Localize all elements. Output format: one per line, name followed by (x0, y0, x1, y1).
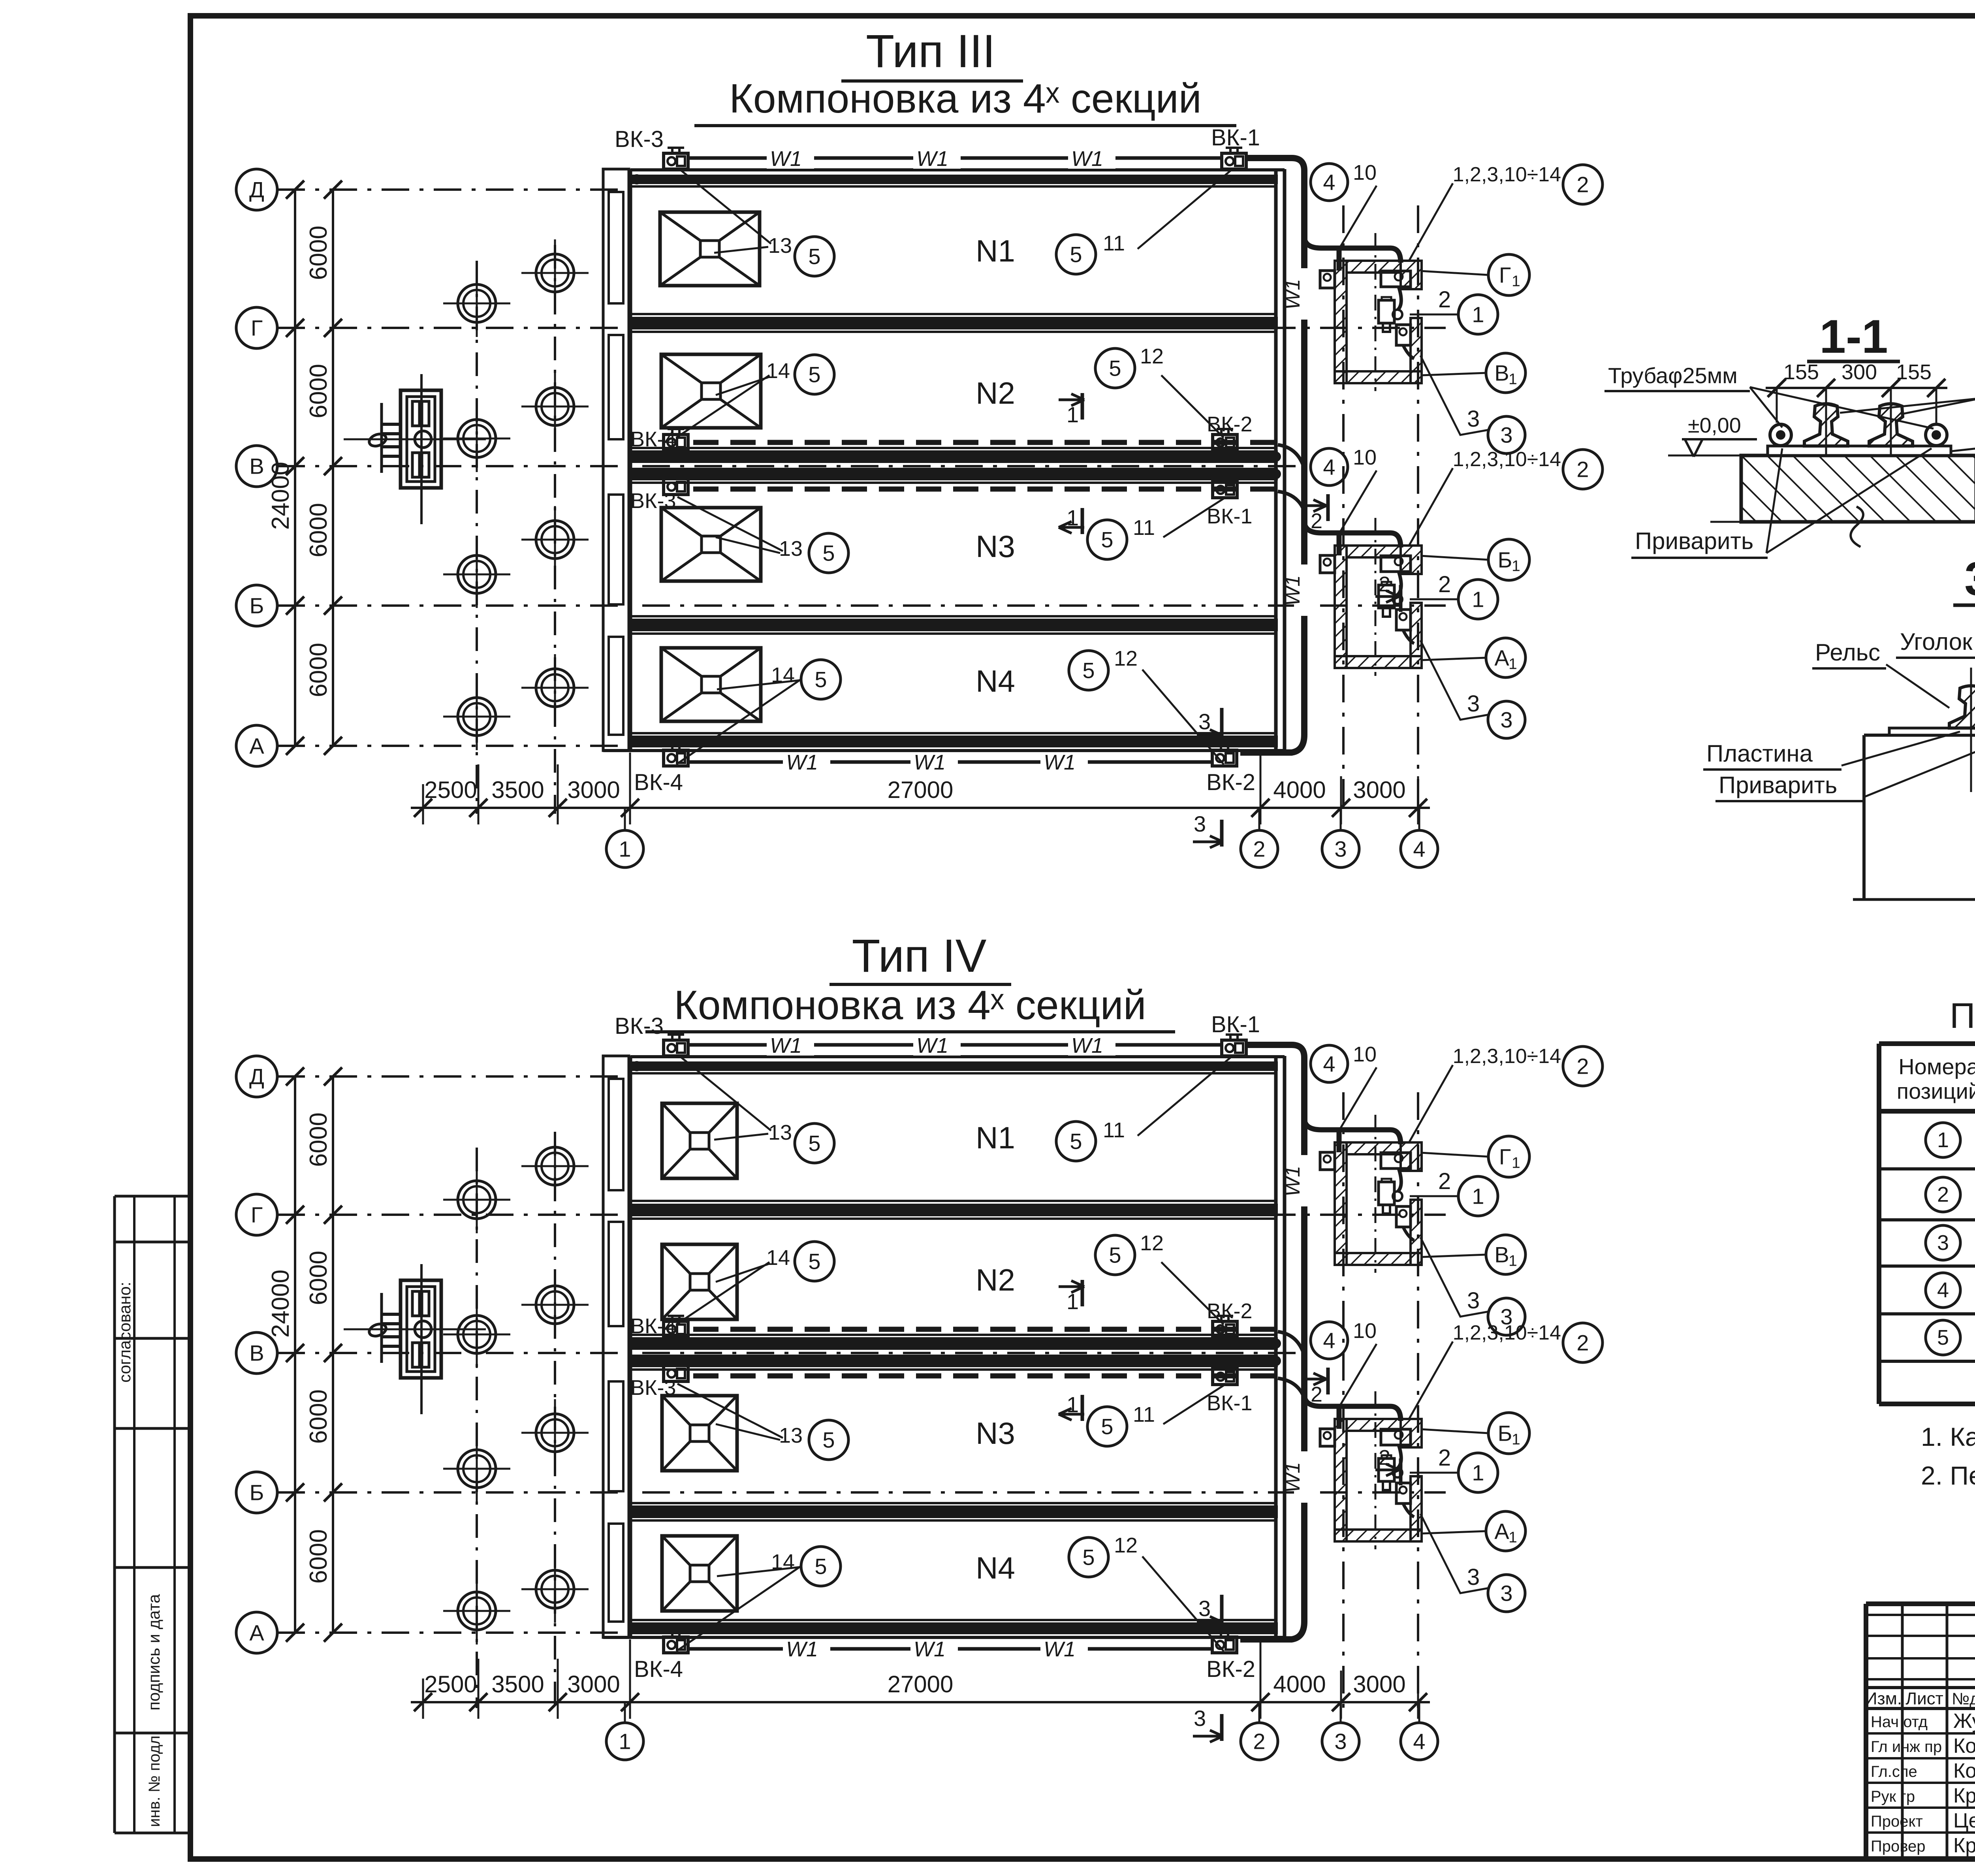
callout 2 (шкаф управления) with cable list (1563, 450, 1603, 489)
svg-text:1,2,3,10÷14: 1,2,3,10÷14 (1453, 163, 1561, 186)
electric motor (1379, 300, 1394, 323)
svg-text:Г: Г (1499, 263, 1511, 288)
svg-text:3: 3 (1467, 691, 1480, 717)
column axis 4 line (1417, 205, 1419, 814)
svg-text:Тип IV: Тип IV (852, 930, 987, 982)
svg-text:1: 1 (1509, 371, 1517, 388)
vertical dim line 6000s (332, 190, 334, 746)
junction box on pit wall (1320, 1429, 1335, 1446)
svg-text:5: 5 (808, 1131, 820, 1156)
svg-text:Коновалова: Коновалова (1953, 1759, 1975, 1782)
svg-text:W1: W1 (786, 751, 818, 774)
svg-text:1: 1 (1509, 656, 1517, 673)
limit switch ВК-3 (mid2) (664, 1366, 688, 1381)
svg-text:2: 2 (1438, 572, 1451, 597)
callout 4 (кнопка управления) (1311, 1045, 1348, 1082)
svg-text:Провер: Провер (1871, 1838, 1926, 1855)
cable W1 dashed run lower (693, 1374, 1275, 1379)
svg-text:А: А (1494, 1519, 1509, 1544)
svg-text:11: 11 (1133, 1403, 1155, 1426)
svg-text:Тип III: Тип III (866, 25, 995, 77)
svg-text:ВК-3: ВК-3 (615, 1013, 664, 1039)
callout 3 (щиток) (1488, 416, 1525, 453)
svg-text:4: 4 (1323, 1328, 1335, 1353)
svg-text:1: 1 (1509, 1529, 1517, 1546)
svg-text:Рельс: Рельс (1815, 639, 1880, 666)
callout 1 (эл. двигатель) (1458, 580, 1498, 619)
svg-text:3000: 3000 (567, 777, 620, 803)
section mark 1 (upper) (1081, 393, 1084, 420)
sludge scraper hopper (plan) (662, 1536, 737, 1611)
hole column centerlines (476, 261, 478, 814)
svg-text:3: 3 (1467, 1288, 1480, 1313)
svg-text:1: 1 (1472, 587, 1484, 612)
svg-text:3: 3 (1500, 707, 1512, 732)
svg-text:ВК-2: ВК-2 (1207, 1299, 1253, 1323)
signature grid verticals (1901, 1604, 1904, 1859)
svg-text:ВК-2: ВК-2 (1206, 770, 1255, 795)
svg-text:13: 13 (779, 537, 803, 561)
svg-text:1: 1 (1066, 505, 1079, 530)
svg-text:1: 1 (1512, 558, 1520, 575)
svg-text:W1: W1 (1281, 575, 1304, 606)
svg-text:6000: 6000 (305, 1112, 332, 1167)
limit switch ВК-2 (bottom) (1212, 1637, 1237, 1653)
svg-text:W1: W1 (1281, 279, 1304, 310)
svg-text:N3: N3 (976, 1416, 1015, 1451)
callout 3 (щиток) (1488, 701, 1525, 738)
row axis В (236, 446, 277, 487)
svg-text:Гл инж пр: Гл инж пр (1871, 1738, 1942, 1756)
svg-text:1: 1 (1472, 1184, 1484, 1209)
switch box inside pit (1381, 556, 1411, 572)
svg-text:5: 5 (1109, 1243, 1121, 1268)
svg-text:Г: Г (251, 1202, 263, 1227)
svg-text:3: 3 (1334, 837, 1347, 862)
svg-text:ВК-1: ВК-1 (1207, 504, 1253, 528)
limit switch ВК-2 (bottom) (1212, 750, 1237, 766)
electric motor (1379, 1182, 1394, 1205)
svg-text:4: 4 (1413, 837, 1425, 862)
svg-text:5: 5 (808, 1249, 820, 1274)
svg-text:27000: 27000 (888, 777, 954, 803)
svg-text:№документа: №документа (1952, 1690, 1975, 1708)
svg-text:Нач отд: Нач отд (1871, 1713, 1928, 1731)
svg-text:2: 2 (1253, 837, 1265, 862)
table row 1 (1926, 1123, 1960, 1157)
svg-text:3000: 3000 (1353, 1671, 1405, 1697)
callout 5/11 section N1 (1138, 1056, 1232, 1136)
svg-text:В: В (1494, 1242, 1509, 1267)
svg-text:Г: Г (251, 316, 263, 341)
middle dividing walls N2/N3 (630, 447, 1276, 449)
sludge scraper hopper (plan) (660, 212, 760, 286)
row axis Г (236, 1194, 277, 1235)
svg-text:12: 12 (1140, 1231, 1164, 1255)
svg-text:14: 14 (766, 359, 790, 383)
svg-text:5: 5 (1101, 527, 1113, 552)
svg-text:5: 5 (1101, 1414, 1113, 1439)
svg-text:3: 3 (1500, 1581, 1512, 1606)
svg-text:2: 2 (1438, 1169, 1451, 1194)
callout 13/5 section N1 (679, 169, 771, 244)
pile holes column A (458, 284, 496, 322)
callout 4 (кнопка управления) (1311, 1322, 1348, 1359)
svg-text:2: 2 (1379, 572, 1390, 596)
svg-text:ВК-4: ВК-4 (630, 427, 676, 451)
svg-text:10: 10 (1353, 161, 1377, 184)
svg-text:5: 5 (808, 362, 820, 387)
svg-text:3-3: 3-3 (1964, 552, 1975, 605)
svg-text:Перечень эл.оборудования: Перечень эл.оборудования (1950, 996, 1975, 1036)
electric motor (1379, 585, 1394, 608)
svg-text:ВК-2: ВК-2 (1206, 1656, 1255, 1682)
svg-text:12: 12 (1114, 1534, 1138, 1557)
svg-text:Проект: Проект (1871, 1813, 1923, 1830)
bottom wall rail (630, 732, 1276, 734)
bottom wall rail (630, 1619, 1276, 1621)
callout 13/5 section N3 (677, 497, 783, 551)
callout 5/11 section N3 (1163, 499, 1224, 537)
svg-text:5: 5 (822, 1428, 835, 1453)
svg-text:2: 2 (1311, 509, 1322, 533)
svg-text:1: 1 (1509, 1253, 1517, 1270)
section mark 2-2 upper (1304, 1378, 1326, 1381)
junction box on pit wall (1320, 1152, 1335, 1170)
base plate (1768, 446, 1951, 455)
callout 13/5 section N3 (677, 1384, 783, 1438)
switch box inside pit (1381, 271, 1411, 287)
svg-text:Гл.спе: Гл.спе (1871, 1763, 1917, 1780)
svg-text:2: 2 (1937, 1183, 1949, 1206)
svg-text:155: 155 (1783, 360, 1819, 384)
svg-text:6000: 6000 (305, 1389, 332, 1444)
inlet pipe stub (382, 423, 401, 426)
svg-text:позиций: позиций (1897, 1079, 1975, 1104)
svg-text:3: 3 (1194, 811, 1206, 836)
svg-text:24000: 24000 (267, 1270, 294, 1338)
svg-text:1: 1 (619, 1729, 631, 1754)
svg-text:2. Перечень эл. оборудования: 2. Перечень эл. оборудования дан для 2ˣ … (1921, 1461, 1975, 1490)
divider wall N3/N4 (630, 1502, 1276, 1504)
rail left (1804, 404, 1848, 446)
divider wall N1/N2 (630, 313, 1276, 315)
scraper rail top (632, 175, 1278, 184)
svg-text:3000: 3000 (1353, 777, 1405, 803)
svg-text:1: 1 (1066, 1392, 1079, 1417)
cable W1 bottom run (688, 1647, 1212, 1651)
cable trunk right side (1240, 158, 1304, 753)
callout 5/12 section N2 (1161, 1262, 1224, 1325)
dim line 155/300/155 (1766, 387, 1947, 389)
sludge scraper hopper (plan) (662, 1103, 737, 1178)
left margin stamp table (113, 1196, 116, 1833)
callout 5/11 section N1 (1138, 169, 1232, 249)
svg-text:14: 14 (771, 663, 795, 687)
pit centerline (1375, 1391, 1377, 1549)
svg-text:1: 1 (1512, 1155, 1520, 1172)
limit switch ВК-4 (bottom) (664, 750, 688, 766)
sludge scraper hopper (plan) (661, 648, 761, 721)
svg-text:1: 1 (1066, 402, 1079, 427)
svg-text:27000: 27000 (888, 1671, 954, 1697)
limit switch ВК-1 (top) (1222, 153, 1246, 169)
limit switch ВК-4 (mid) (664, 435, 688, 450)
cable branch into pit (1304, 236, 1401, 263)
svg-text:5: 5 (1109, 356, 1121, 381)
callout 13/5 section N1 (679, 1056, 771, 1131)
svg-text:10: 10 (1353, 446, 1377, 469)
svg-text:ВК-4: ВК-4 (630, 1314, 676, 1338)
svg-text:согласовано:: согласовано: (115, 1282, 134, 1383)
svg-text:В: В (249, 1341, 264, 1366)
svg-text:ВК-3: ВК-3 (630, 489, 676, 513)
svg-text:Д: Д (249, 177, 264, 202)
section mark 2-2 lower (1375, 595, 1399, 598)
vertical dim line 6000s (332, 1076, 334, 1633)
sludge scraper hopper (plan) (662, 1244, 737, 1319)
column axis circles 1-4 (624, 1702, 626, 1723)
svg-text:N1: N1 (976, 1120, 1015, 1155)
middle dividing walls N2/N3 (630, 1334, 1276, 1336)
svg-text:Целюба: Целюба (1953, 1809, 1975, 1832)
svg-text:12: 12 (1114, 647, 1138, 670)
scraper rail top (632, 1061, 1278, 1071)
svg-text:14: 14 (766, 1246, 790, 1270)
svg-text:1,2,3,10÷14: 1,2,3,10÷14 (1453, 1321, 1561, 1344)
svg-text:10: 10 (1353, 1042, 1377, 1066)
svg-text:5: 5 (1070, 1129, 1082, 1154)
svg-text:ВК-1: ВК-1 (1211, 125, 1260, 151)
svg-text:ВК-4: ВК-4 (634, 1656, 683, 1682)
motor pit at y=2892 (1335, 1142, 1422, 1265)
divider wall N1/N2 (630, 1200, 1276, 1202)
table row 4 (1926, 1273, 1960, 1308)
svg-text:1,2,3,10÷14: 1,2,3,10÷14 (1453, 448, 1561, 471)
svg-text:1: 1 (1472, 302, 1484, 327)
callout 14/5 section N4 (676, 679, 802, 764)
svg-text:ВК-3: ВК-3 (630, 1376, 676, 1400)
svg-text:N2: N2 (976, 1263, 1015, 1297)
callout 1 (эл. двигатель) (1458, 1176, 1498, 1216)
svg-text:А: А (1494, 645, 1509, 670)
column axis 4 line (1417, 1092, 1419, 1708)
svg-text:4: 4 (1937, 1278, 1949, 1302)
svg-text:±0,00: ±0,00 (1688, 414, 1741, 437)
svg-text:13: 13 (768, 1121, 792, 1144)
callout 1 (эл. двигатель) (1458, 1453, 1498, 1492)
svg-text:3: 3 (1937, 1231, 1949, 1255)
svg-text:Б: Б (250, 593, 264, 618)
svg-text:5: 5 (1082, 1545, 1095, 1570)
table row 5 (1926, 1320, 1960, 1355)
switch box inside pit (1381, 1429, 1411, 1445)
pit centerline (1375, 518, 1377, 676)
bottom break line (3-3) (1853, 898, 1975, 901)
svg-text:Кривой: Кривой (1953, 1834, 1975, 1857)
tank wall top surface (3-3) (1864, 734, 1975, 737)
svg-text:В: В (1494, 361, 1509, 386)
svg-text:W1: W1 (916, 147, 948, 171)
svg-text:Номера: Номера (1898, 1054, 1975, 1079)
svg-text:Пластина: Пластина (1706, 740, 1813, 767)
svg-text:А: А (249, 1620, 264, 1645)
svg-text:инв. № подл.: инв. № подл. (146, 1731, 163, 1827)
cable trunk right side (1240, 1045, 1304, 1639)
junction box on pit wall (1320, 555, 1335, 573)
cable W1 top run (688, 156, 1222, 160)
svg-text:Г: Г (1499, 1144, 1511, 1169)
tank wall left edge (1862, 735, 1866, 899)
vertical dim line 24000 (294, 1076, 296, 1633)
svg-text:1. Кабельный журнал см. лист: 1. Кабельный журнал см. листы Э03 ÷ Э07 … (1921, 1422, 1975, 1451)
svg-text:2: 2 (1576, 172, 1589, 197)
bottom dimension chain (411, 807, 1430, 809)
svg-text:1: 1 (1512, 1431, 1520, 1448)
callout 5/11 section N3 (1163, 1385, 1224, 1424)
section mark 1 (lower) (1081, 1395, 1084, 1421)
row axis Д (236, 169, 277, 210)
limit switch ВК-1 (top) (1222, 1040, 1246, 1056)
table grid (1877, 1044, 1881, 1404)
svg-text:5: 5 (808, 244, 820, 269)
inlet distribution chamber (401, 390, 441, 488)
svg-text:W1: W1 (786, 1637, 818, 1661)
cable W1 dashed run upper (693, 1327, 1275, 1332)
limit switch ВК-1 (mid2) (1213, 1369, 1237, 1385)
svg-text:10: 10 (1353, 1319, 1377, 1343)
svg-text:1: 1 (1937, 1128, 1949, 1152)
svg-text:Кривой: Кривой (1953, 1784, 1975, 1807)
row axis Б (236, 585, 277, 626)
svg-text:5: 5 (814, 667, 827, 692)
motor pit at y=1381 (1335, 546, 1422, 668)
column axis 3 line (1342, 205, 1345, 814)
lower switch in pit (1396, 1206, 1411, 1227)
axis mark А1 (1486, 638, 1525, 677)
row axis Б (236, 1472, 277, 1513)
svg-text:ВК-1: ВК-1 (1211, 1012, 1260, 1037)
svg-text:2500: 2500 (424, 777, 477, 803)
svg-text:W1: W1 (770, 1034, 802, 1057)
rail right (1869, 404, 1913, 446)
svg-text:Изм.: Изм. (1865, 1689, 1902, 1709)
svg-text:W1: W1 (1044, 751, 1076, 774)
pit centerline (1375, 233, 1377, 391)
callout 4 (кнопка управления) (1311, 164, 1348, 201)
concrete plinth (hatched) (1741, 455, 1975, 522)
svg-text:5: 5 (1082, 658, 1095, 683)
svg-text:Рук гр: Рук гр (1871, 1788, 1915, 1805)
svg-text:В: В (249, 454, 264, 479)
svg-text:N2: N2 (976, 376, 1015, 410)
svg-text:3: 3 (1198, 709, 1211, 734)
cable W1 top run (688, 1043, 1222, 1047)
limit switch ВК-3 (top) (664, 153, 688, 169)
column axis circles 1-4 (624, 808, 626, 830)
svg-text:ВК-4: ВК-4 (634, 770, 683, 795)
svg-text:Журавель: Журавель (1953, 1710, 1975, 1733)
svg-text:24000: 24000 (267, 462, 294, 530)
section mark 1 (upper) (1081, 1280, 1084, 1306)
cable links to trunk (middle) (1278, 445, 1303, 464)
svg-text:2: 2 (1576, 1054, 1589, 1079)
svg-text:155: 155 (1896, 360, 1932, 384)
svg-text:ВК-2: ВК-2 (1207, 412, 1253, 436)
axis mark Г1 (1488, 1136, 1529, 1177)
svg-text:W1: W1 (770, 147, 802, 171)
svg-text:3: 3 (1467, 1564, 1480, 1590)
svg-text:4: 4 (1323, 170, 1335, 195)
svg-text:Б: Б (250, 1480, 264, 1505)
callout 2 (шкаф управления) with cable list (1563, 1046, 1603, 1086)
svg-text:W1: W1 (1281, 1166, 1304, 1197)
pile holes column B (536, 254, 574, 292)
axis mark В1 (1486, 353, 1525, 393)
svg-text:3000: 3000 (567, 1671, 620, 1697)
svg-text:Приварить: Приварить (1635, 528, 1753, 554)
section mark 2-2 lower (1375, 1469, 1399, 1471)
svg-text:5: 5 (822, 541, 835, 566)
callout 2 (шкаф управления) with cable list (1563, 165, 1603, 204)
svg-text:Д: Д (249, 1064, 264, 1089)
svg-text:6000: 6000 (305, 503, 332, 557)
svg-text:Козловская: Козловская (1953, 1735, 1975, 1757)
svg-text:1,2,3,10÷14: 1,2,3,10÷14 (1453, 1045, 1561, 1068)
svg-text:6000: 6000 (305, 364, 332, 418)
switch box inside pit (1381, 1153, 1411, 1169)
svg-text:3500: 3500 (491, 1671, 544, 1697)
svg-text:2: 2 (1576, 1330, 1589, 1355)
axis mark В1 (1486, 1235, 1525, 1274)
callout 3 (щиток) (1488, 1298, 1525, 1335)
motor pit at y=660 (1335, 261, 1422, 383)
svg-text:Приварить: Приварить (1719, 772, 1837, 798)
pit centerline (1375, 1115, 1377, 1273)
row axis Г (236, 307, 277, 348)
svg-text:5: 5 (814, 1554, 827, 1579)
svg-text:5: 5 (1070, 242, 1082, 267)
svg-text:W1: W1 (1071, 1034, 1103, 1057)
lower switch in pit (1396, 1483, 1411, 1503)
pile holes column A (458, 1181, 496, 1219)
conduit pipe left (section) (1770, 424, 1791, 446)
limit switch ВК-1 (mid2) (1213, 482, 1237, 498)
motor pit at y=3592 (1335, 1419, 1422, 1541)
callout 1 (эл. двигатель) (1458, 295, 1498, 334)
divider wall N3/N4 (630, 615, 1276, 617)
svg-text:11: 11 (1103, 1118, 1125, 1142)
svg-text:2500: 2500 (424, 1671, 477, 1697)
svg-text:1: 1 (1512, 273, 1520, 290)
svg-text:2: 2 (1253, 1729, 1265, 1754)
inlet pipe stub (382, 1313, 401, 1316)
sludge scraper hopper (plan) (661, 354, 761, 428)
svg-text:6000: 6000 (305, 643, 332, 697)
limit switch ВК-4 (mid) (664, 1321, 688, 1337)
svg-text:W1: W1 (1281, 1462, 1304, 1493)
callout 5/12 section N2 (1161, 375, 1224, 438)
callout 2 (шкаф управления) with cable list (1563, 1323, 1603, 1362)
row axis В (236, 1332, 277, 1374)
svg-text:W1: W1 (914, 751, 946, 774)
sludge scraper hopper (plan) (661, 508, 761, 581)
pile holes column B (536, 1147, 574, 1185)
svg-text:2: 2 (1438, 287, 1451, 312)
axis mark А1 (1486, 1511, 1525, 1551)
rail centerline (1970, 668, 1972, 792)
limit switch ВК-3 (mid2) (664, 479, 688, 495)
